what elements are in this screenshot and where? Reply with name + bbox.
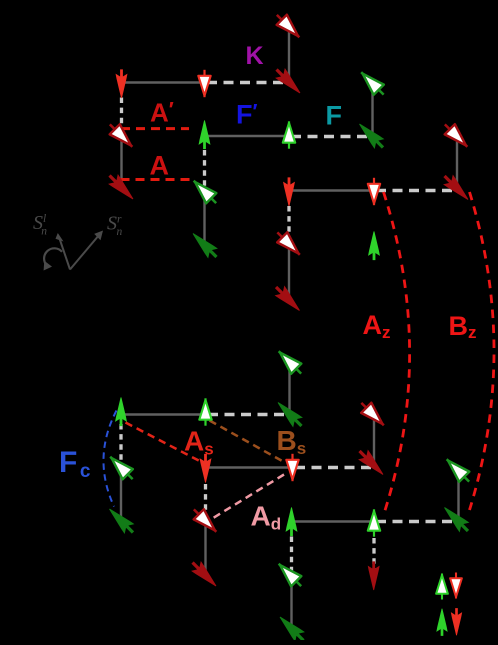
wire bond c2 r3-r4 — [203, 190, 205, 244]
spin arrow (d4,s4) dark-red down filled — [368, 562, 379, 590]
legend arrow green up filled — [437, 609, 447, 636]
spin arrow (c2,r1) white-red down — [198, 70, 210, 97]
wire bond c5 r2-r3 — [456, 136, 458, 188]
spin arrow (d2,s3) white-red down-right — [189, 504, 222, 537]
legend arrow red down filled — [451, 609, 461, 636]
wire bond c3 r0-r1 — [288, 27, 290, 83]
spin arrow (c2,r4) dark-green up-left filled — [189, 229, 221, 261]
wire bond d3 s4-s5 — [290, 575, 292, 629]
wire dashed bond s1 d2-d3 — [208, 413, 290, 416]
spin arrow (c3,r4) white-red down-right — [272, 227, 305, 260]
wire bond d3 s0-s1 — [288, 362, 290, 414]
spin arrow (c4,r2) dark-green up-left filled — [355, 120, 387, 152]
spin arrow (d3,s3) green up filled — [286, 508, 297, 536]
wire As dashed bond — [126, 423, 202, 463]
svg-text:A: A — [150, 151, 170, 181]
axis arrow S-left — [60, 239, 71, 270]
wire bond d4 s1-s2 — [373, 415, 375, 464]
wire dashed bond d3 s3-s4 — [290, 537, 293, 575]
svg-text:F: F — [326, 101, 343, 131]
spin arrow (d1,s1) green up filled — [116, 398, 127, 426]
spin arrow (c4,r4) green up filled — [369, 232, 380, 260]
wire Bz dashed arc — [470, 192, 495, 510]
wire dashed bond s2 d3-d4 — [295, 466, 374, 469]
wire Ad dashed bond — [209, 475, 284, 521]
legend arrow white-red down — [450, 573, 462, 599]
wire dashed bond d2 s2-s3 — [204, 484, 207, 521]
wire dashed bond c2 r2-r3 — [203, 150, 206, 190]
wire Az dashed arc — [384, 192, 410, 512]
wire dashed bond r3 c4-c5 — [376, 189, 457, 192]
spin arrow (d1,s2) white-green up-left — [105, 452, 138, 485]
spin arrow (d3,s1) dark-green up-left filled — [274, 398, 306, 430]
wire A-prime dashed bond — [121, 127, 189, 130]
rotation arrow omega — [44, 248, 62, 265]
wire dashed bond c3 r3-r4 — [287, 206, 290, 244]
spin arrow (d2,s2) red down filled — [200, 454, 211, 482]
wire dashed bond c1 r1-r2 — [120, 98, 123, 136]
spin arrow (c1,r2) white-red down-right — [105, 119, 138, 152]
spin arrow (c3,r2) white-green up — [283, 121, 295, 148]
spin arrow (c3,r0) white-red down-right — [272, 10, 305, 43]
spin arrow (c4,r3) white-red down — [368, 178, 380, 205]
wire bond c4 r1-r2 — [371, 83, 373, 136]
wire bond s2 d2-d3 — [206, 466, 293, 468]
spin arrow (c2,r3) white-green up-left — [189, 176, 222, 209]
spin arrow (d4,s2) dark-red down-right filled — [355, 447, 387, 479]
spin arrow (d4,s3) white-green up — [368, 509, 380, 536]
wire bond d5 s2-s3 — [457, 470, 459, 519]
wire bond s3 d3-d4 — [292, 520, 375, 522]
wire bond d2 s3-s4 — [204, 521, 206, 575]
spin arrow (d2,s1) white-green up — [199, 398, 211, 425]
wire bond r1 c1-c2 — [122, 81, 205, 83]
spin arrow (d5,s2) white-green up-left — [442, 454, 475, 487]
spin arrow (d1,s3) dark-green up-left filled — [105, 505, 137, 537]
wire bond r2 c2-c3 — [205, 135, 290, 137]
spin arrow (c3,r3) red down filled — [284, 178, 295, 206]
wire bond r3 c3-c4 — [289, 189, 374, 191]
spin arrow (d4,s1) white-red down-right — [356, 398, 389, 431]
spin arrow (c5,r2) white-red down-right — [440, 119, 473, 152]
wire bond d1 s2-s3 — [120, 466, 122, 520]
spin arrow (d3,s2) white-red down — [286, 454, 298, 481]
wire dashed bond d1 s1-s2 — [119, 424, 122, 466]
wire Fc dashed arc — [103, 411, 116, 507]
axis arrow S-right — [70, 235, 100, 270]
spin arrow (d3,s4) white-green up-left — [274, 559, 307, 592]
spin arrow (c4,r1) white-green up-left — [356, 67, 389, 100]
wire dashed bond s3 d4-d5 — [376, 520, 459, 523]
spin arrow (d2,s4) dark-red down-right filled — [188, 558, 220, 590]
wire bond s1 d1-d2 — [121, 413, 206, 415]
wire bond c3 r4-r5 — [288, 244, 290, 299]
wire dashed bond d4 s3-s4 — [372, 538, 375, 576]
svg-text:Sln: Sln — [33, 212, 47, 238]
wire Bs dashed bond — [210, 421, 285, 463]
svg-text:Srn: Srn — [107, 213, 122, 239]
spin arrow (c1,r1) red down filled — [116, 70, 127, 98]
spin arrow (c2,r2) green up filled — [199, 121, 210, 149]
wire bond c1 r2-r3 — [120, 128, 122, 190]
spin arrow (d3,s5) dark-green up-left filled — [276, 613, 308, 645]
legend arrow white-green up — [436, 573, 448, 599]
spin arrow (c3,r5) dark-red down-right filled — [272, 283, 304, 315]
spin arrow (c5,r3) dark-red down-right filled — [440, 172, 472, 204]
wire A dashed bond — [121, 178, 194, 181]
spin arrow (d3,s0) white-green up-left — [274, 346, 307, 379]
wire dashed bond r1 c2-c3 — [207, 81, 289, 84]
spin arrow (d5,s3) dark-green up-left filled — [440, 503, 472, 535]
wire dashed bond r2 c3-c4 — [291, 135, 373, 138]
spin arrow (c1,r3) dark-red down-right filled — [105, 171, 137, 203]
spin arrow (c3,r1) dark-red down-right filled — [272, 65, 304, 97]
svg-text:K: K — [246, 42, 264, 70]
